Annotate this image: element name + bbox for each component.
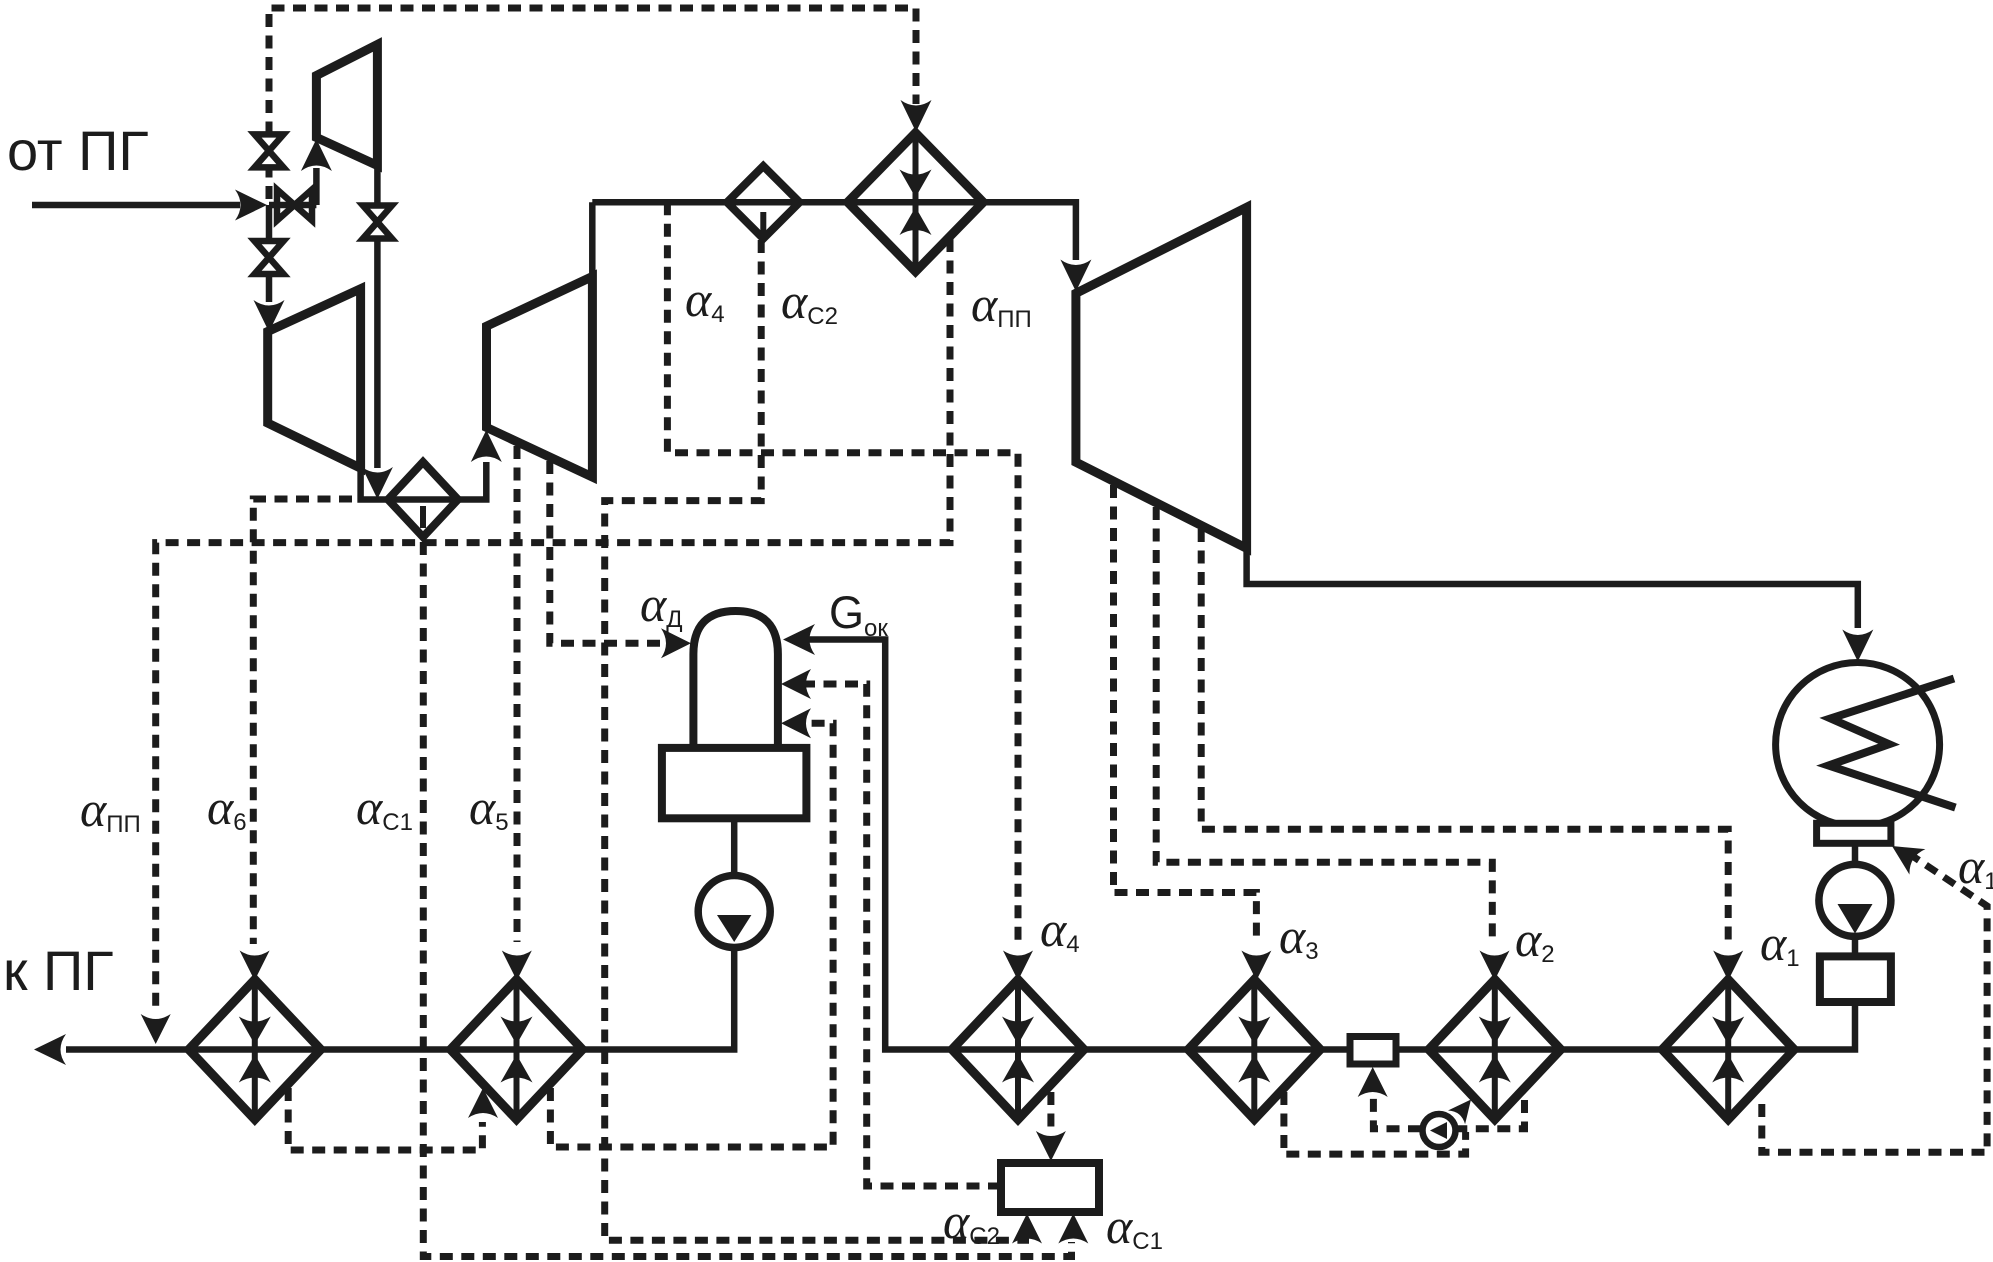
node: arrow drain cooler outlet into deaerator	[781, 669, 811, 699]
wire: reheater drain aPP to feed line	[156, 239, 950, 1012]
wire: extraction a6 from HP exhaust to heater H6	[253, 499, 352, 944]
node: arrow H6 drain into H5	[468, 1088, 498, 1118]
node: arrow a2 into H2	[1480, 951, 1510, 981]
node: arrow into LP turbine inlet	[1060, 260, 1091, 292]
node: arrow into HP turbine 1 inlet	[301, 139, 332, 171]
wire: T2 exhaust to separator S1	[361, 464, 390, 500]
svg-text:α4: α4	[1040, 901, 1080, 958]
wire: LP extraction a2	[1156, 507, 1492, 944]
pump P2 feed pump	[698, 876, 770, 948]
wire: extraction aD from IP turbine to deaerator	[550, 461, 660, 643]
svg-text:α1: α1	[1958, 838, 1993, 895]
dashed extraction network	[156, 202, 1987, 1256]
wire: H4 to deaerator riser Gok	[790, 640, 951, 1050]
wire: dashed fresh-steam branch up to top header	[269, 8, 916, 199]
turbine T4 LP section	[1076, 207, 1247, 548]
wire: H6 to steam generator (k PG)	[66, 1046, 191, 1053]
reheater RH diamond heat exchanger	[848, 133, 984, 272]
wire: S1 drain aC1 to drain cooler	[423, 542, 1071, 1257]
node: S1 drain tick	[420, 506, 426, 528]
deaerator tank	[662, 748, 807, 818]
wire: reheater to LP turbine	[983, 202, 1076, 260]
turbine T2 HP section	[268, 289, 361, 468]
svg-text:α3: α3	[1279, 908, 1319, 965]
wire: drain cooler outlet to deaerator	[806, 684, 1001, 1186]
node: arrow a1 into H1	[1713, 951, 1743, 981]
node: arrow drain pump discharge into mixer	[1358, 1067, 1388, 1097]
node: arrow into HP turbine 2 inlet	[254, 300, 285, 332]
wire: H4 drain into drain cooler	[1047, 1092, 1054, 1130]
wire: mixer to H3	[1321, 1046, 1350, 1053]
drain pump P3	[1423, 1114, 1456, 1147]
turbine T3 IP section	[487, 277, 593, 478]
wire: drain pump discharge to mixer	[1373, 1096, 1421, 1129]
svg-text:α6: α6	[207, 779, 247, 836]
wire: extraction a5 from IP turbine to heater H5	[514, 446, 521, 942]
wire: T1 exhaust downpipe	[374, 166, 381, 207]
valve V2 below junction	[255, 241, 284, 274]
wire: H1 drain to condenser	[1762, 853, 1987, 1152]
wire: T3 outlet up to main crossover line	[589, 202, 596, 276]
node: arrow into condenser	[1842, 630, 1873, 662]
wire: H1 to H2	[1562, 1046, 1661, 1053]
wire: H5 drain to deaerator	[550, 723, 833, 1147]
node: S2 drain tick	[760, 212, 766, 240]
node: arrow aC2 into drain cooler	[1012, 1214, 1042, 1244]
node: Gok arrow into deaerator	[783, 624, 815, 655]
wire: LP extraction a1	[1201, 529, 1728, 944]
wire: H2 to mixer	[1396, 1046, 1428, 1053]
node: arrow H1 drain into condenser hotwell	[1884, 833, 1925, 874]
svg-text:Gок: Gок	[829, 587, 888, 642]
valve V1 on dashed branch above junction	[255, 134, 284, 167]
node: arrow aD into deaerator	[661, 628, 691, 658]
svg-text:α1: α1	[1760, 915, 1800, 972]
svg-text:α2: α2	[1515, 911, 1555, 968]
heater H3 (LPH-3)	[1188, 980, 1320, 1120]
node: arrow a5 into H5	[502, 951, 532, 981]
wire: junction down to HP turbine section 2	[266, 205, 273, 302]
wire: S2 drain aC2 to drain cooler	[605, 240, 1026, 1240]
wire: LP extraction a3	[1114, 485, 1257, 944]
svg-text:αС2: αС2	[781, 273, 838, 330]
svg-text:α5: α5	[469, 779, 509, 836]
node: arrow into separator inlet header	[362, 467, 393, 499]
node: arrow a4 into H4	[1003, 951, 1033, 981]
pump P1 condensate pump	[1819, 864, 1891, 936]
heater H5 (HPH-5)	[451, 980, 583, 1120]
heater H4 (LPH-4)	[952, 980, 1084, 1120]
node: arrow H5 drain into deaerator	[781, 708, 811, 738]
wire: H5 to H6	[320, 1046, 450, 1053]
separator S2 diamond	[727, 166, 800, 239]
node: arrow H4 drain into drain cooler	[1036, 1131, 1066, 1161]
heater H6 (HPH-6)	[189, 980, 321, 1120]
heater H2 (LPH-2)	[1429, 980, 1561, 1120]
wire: pump to ejector box	[1852, 936, 1859, 956]
condenser cooling-water coil	[1829, 679, 1956, 808]
wire: riser to HP turbine 1 inlet	[313, 168, 320, 205]
svg-text:αС1: αС1	[356, 779, 413, 836]
mixer box M1	[1350, 1037, 1396, 1065]
ejector/gland-condenser box E1	[1820, 956, 1891, 1002]
node: fresh steam arrow into HP valve block	[235, 190, 267, 221]
wire: fresh steam line from steam generator	[32, 202, 240, 209]
condenser K circle	[1776, 663, 1940, 827]
wire: feed pump down to feed line and to heater H5	[583, 948, 735, 1050]
valve V3 bowtie on horizontal run	[277, 190, 312, 221]
wire: S2 to reheater	[800, 199, 849, 206]
wire: box down and left to heater H1	[1795, 1002, 1855, 1050]
wire: H3 drain to drain pump	[1284, 1092, 1466, 1154]
heater H1 (LPH-1)	[1662, 980, 1794, 1120]
svg-text:αД: αД	[640, 576, 683, 633]
node: arrow aC1 into drain cooler	[1058, 1214, 1088, 1244]
svg-text:αПП: αПП	[971, 276, 1032, 333]
wire: tank to feed pump	[731, 818, 738, 875]
svg-text:αС2: αС2	[943, 1193, 1000, 1250]
node: feedwater arrow to steam generator	[34, 1034, 66, 1065]
svg-text:к ПГ: к ПГ	[3, 939, 114, 1002]
node: arrow into IP turbine inlet	[471, 430, 502, 462]
svg-text:α4: α4	[685, 271, 725, 328]
wire: crossover line to separator S2	[592, 199, 728, 206]
svg-text:αПП: αПП	[80, 781, 141, 838]
svg-text:от ПГ: от ПГ	[7, 119, 149, 182]
wire: LP exhaust to condenser	[1247, 544, 1858, 628]
node: arrow drain pump into H2	[1448, 1093, 1480, 1125]
wire: junction right to riser	[269, 202, 316, 209]
condenser hotwell box	[1817, 823, 1891, 843]
svg-text:αС1: αС1	[1106, 1198, 1163, 1255]
wire: hotwell to condensate pump	[1852, 843, 1859, 864]
node: arrow a3 into H3	[1241, 951, 1271, 981]
turbine T1 HP control-stage section	[316, 45, 377, 166]
node: arrow aPP into feed line	[141, 1014, 171, 1044]
node: arrow into reheater top	[901, 100, 932, 132]
wire: extraction a4 from crossover down and to heater H4	[667, 202, 1018, 944]
wire: H2 drain to drain pump	[1458, 1100, 1525, 1129]
valve V4 on T1 exhaust downpipe	[363, 206, 392, 239]
drain cooler DC box	[1001, 1163, 1099, 1212]
wire: S1 to IP turbine riser	[458, 462, 486, 500]
separator S1 diamond	[388, 462, 458, 537]
wire: H6 drain cascade to H5	[288, 1088, 482, 1150]
wire: H3 to H4	[1085, 1046, 1187, 1053]
deaerator D column	[693, 611, 778, 748]
node: arrow a6 into H6	[240, 951, 270, 981]
